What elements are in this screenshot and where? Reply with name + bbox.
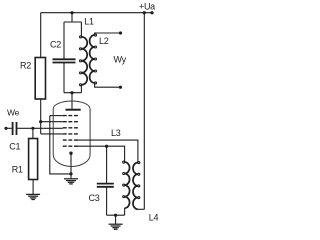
wire L4 bottom to +Ua vertical [138, 208, 144, 210]
terminal +Ua endpoint dot [150, 11, 153, 14]
wire to grid row2 [41, 121, 63, 123]
wire L2 bottom terminal [95, 83, 121, 87]
tube V1 envelope [53, 101, 90, 166]
wire R1 top lead [32, 128, 34, 138]
capacitor C1 [13, 122, 17, 135]
terminal input dot We [4, 127, 7, 130]
svg-text:+Ua: +Ua [139, 1, 155, 11]
node junction dot tank ground [114, 214, 117, 217]
node junction dot C3 tap [105, 145, 108, 148]
node junction dot on rail at right corner [143, 11, 146, 14]
capacitor C2 [53, 59, 76, 62]
wire suppressor bus down [50, 116, 71, 174]
wire C3 bottom lead [106, 187, 108, 215]
inductor L2 [90, 35, 95, 83]
wire L1 bottom lead [80, 85, 82, 93]
svg-text:C2: C2 [50, 39, 61, 49]
grid row 2 dashes [63, 121, 78, 123]
grid row 5 dashes [63, 139, 78, 141]
wire rail corner down to R2 top [40, 13, 42, 58]
terminal dot L2 top [119, 31, 122, 34]
wire C1 to grid row3 [17, 127, 63, 129]
ground below cathode [64, 179, 78, 184]
node junction dot R2 to grid2 [39, 120, 42, 123]
svg-text:Wy: Wy [114, 55, 127, 65]
wire grid row5 to L4 [76, 140, 138, 162]
ground below R1 [26, 194, 40, 199]
inductor L1 [81, 37, 87, 85]
wire C2 bottom lead [63, 63, 65, 93]
node junction dot C1/R1 [31, 127, 34, 130]
wire +Ua right vertical down to L4 bottom [143, 13, 145, 210]
ground below tank [109, 224, 123, 229]
grid row 1 dashes [63, 115, 78, 117]
wire to grid row4 [41, 133, 63, 135]
svg-text:C1: C1 [9, 142, 20, 152]
wire anode lead down into tube [71, 93, 73, 109]
svg-text:R1: R1 [12, 165, 23, 175]
svg-text:L2: L2 [99, 36, 109, 46]
svg-text:C3: C3 [89, 193, 100, 203]
grid row 4 dashes [63, 133, 78, 135]
wire C3 top lead [106, 146, 108, 183]
wire cathode lead down [70, 153, 72, 178]
wire L2 top terminal [95, 33, 121, 35]
node junction dot cathode/bus [69, 172, 72, 175]
resistor R1 [29, 139, 38, 180]
wire R2 bottom bus down [40, 99, 42, 134]
grid row 3 dashes [63, 127, 78, 129]
wire grid row1 to left bus [50, 115, 63, 117]
wire ground lead [115, 215, 117, 224]
grid row 6 dashes [63, 145, 78, 147]
wire R1 bottom lead [32, 180, 34, 195]
svg-text:L4: L4 [149, 213, 159, 223]
resistor R2 [35, 58, 45, 100]
wire input to C1 [6, 127, 12, 129]
capacitor C3 [97, 184, 114, 187]
wire +Ua top rail [41, 12, 152, 14]
wire L1 top lead [80, 22, 82, 37]
svg-text:R2: R2 [20, 60, 31, 70]
svg-text:We: We [7, 107, 20, 117]
terminal dot L2 bottom [119, 86, 122, 89]
inductor L3 [125, 162, 130, 208]
wire C2 top lead [63, 22, 65, 59]
node junction dot anode node [70, 91, 73, 94]
wire tank ground rail [107, 214, 125, 216]
node junction dot on rail above C2/L1 [70, 11, 73, 14]
svg-text:L1: L1 [84, 17, 94, 27]
wire grid row6 to L3 [76, 146, 125, 162]
wire L3 bottom lead [124, 208, 126, 215]
svg-text:L3: L3 [111, 128, 121, 138]
inductor L4 [133, 163, 138, 210]
cathode dot [69, 152, 72, 155]
anode plate bar [66, 109, 81, 111]
wire stub from rail junction down to C2/L1 tee [64, 13, 82, 22]
wire anode node horizontal [64, 92, 82, 94]
